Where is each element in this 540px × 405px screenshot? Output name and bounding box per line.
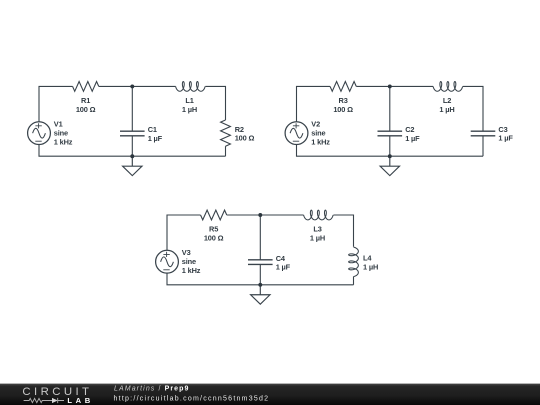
svg-text:L31 µH: L31 µH — [310, 225, 325, 243]
voltage source V2 (sine 1 kHz) — [285, 122, 308, 145]
ground — [251, 285, 270, 304]
junction node C4 top junction — [258, 213, 262, 217]
wire L2 to C3 top — [463, 86, 483, 131]
svg-text:R3100 Ω: R3100 Ω — [333, 96, 353, 114]
svg-text:R5100 Ω: R5100 Ω — [204, 225, 224, 243]
svg-text:R1100 Ω: R1100 Ω — [76, 96, 96, 114]
wire C1 top lead — [131, 86, 133, 131]
wire C4 top lead — [259, 215, 261, 260]
wire R3-L2 top segment — [356, 85, 433, 87]
resistor R2 (vertical) — [221, 120, 231, 146]
svg-text:C31 µF: C31 µF — [498, 125, 513, 143]
junction node C2 top junction — [388, 84, 392, 88]
capacitor C1 — [120, 131, 145, 136]
ground — [123, 156, 142, 175]
svg-text:LAB: LAB — [67, 396, 93, 405]
junction node C1 top junction — [130, 84, 134, 88]
svg-text:LAMartins / Prep9: LAMartins / Prep9 — [114, 385, 190, 392]
svg-text:L11 µH: L11 µH — [182, 96, 197, 114]
inductor L3 — [304, 210, 334, 220]
svg-text:V1sine1 kHz: V1sine1 kHz — [54, 120, 73, 147]
capacitor C2 — [378, 131, 403, 136]
voltage source V1 (sine 1 kHz) — [28, 122, 51, 145]
svg-text:C41 µF: C41 µF — [276, 254, 291, 272]
capacitor C4 — [248, 260, 273, 265]
wire V2 plus lead / top-left — [297, 86, 331, 121]
junction node C1 bottom junction — [130, 154, 134, 158]
logo squiggle (resistor + diode) — [24, 398, 64, 403]
svg-text:R2100 Ω: R2100 Ω — [235, 125, 255, 143]
svg-text:http://circuitlab.com/ccnn56tn: http://circuitlab.com/ccnn56tnm35d2 — [114, 395, 270, 402]
wire V3 plus lead / top-left — [167, 215, 201, 250]
resistor R5 — [201, 210, 227, 220]
resistor R3 — [330, 82, 356, 92]
wire V1 plus lead / top-left — [39, 86, 73, 121]
voltage source V3 (sine 1 kHz) — [156, 250, 179, 273]
wire L1 to R2 top — [205, 86, 225, 120]
svg-text:L41 µH: L41 µH — [363, 254, 378, 272]
wire V1 minus lead / bottom rail — [39, 145, 226, 157]
inductor L2 — [433, 82, 463, 92]
wire C2 bottom lead — [389, 136, 391, 156]
inductor L1 — [176, 82, 206, 92]
junction node C2 bottom junction — [388, 154, 392, 158]
ground — [380, 156, 399, 175]
wire R1-L1 top segment — [99, 85, 176, 87]
wire L3 to L4 top — [333, 215, 353, 247]
svg-text:C21 µF: C21 µF — [405, 125, 420, 143]
wire R5-L3 top segment — [227, 214, 304, 216]
svg-text:V3sine1 kHz: V3sine1 kHz — [182, 248, 201, 275]
wire C2 top lead — [389, 86, 391, 131]
svg-text:C11 µF: C11 µF — [148, 125, 163, 143]
wire R2 bottom lead — [225, 146, 227, 156]
svg-text:L21 µH: L21 µH — [439, 96, 454, 114]
svg-text:V2sine1 kHz: V2sine1 kHz — [311, 120, 330, 147]
resistor R1 — [73, 82, 99, 92]
footer bar — [0, 384, 540, 405]
inductor L4 (vertical) — [349, 247, 359, 277]
junction node C4 bottom junction — [258, 283, 262, 287]
wire C3 bottom lead — [482, 136, 484, 156]
wire C4 bottom lead — [259, 264, 261, 284]
wire V2 minus lead / bottom rail — [297, 145, 484, 157]
wire V3 minus lead / bottom rail — [167, 273, 354, 285]
wire C1 bottom lead — [131, 136, 133, 156]
capacitor C3 (right) — [471, 131, 496, 136]
wire L4 bottom lead — [353, 277, 355, 285]
